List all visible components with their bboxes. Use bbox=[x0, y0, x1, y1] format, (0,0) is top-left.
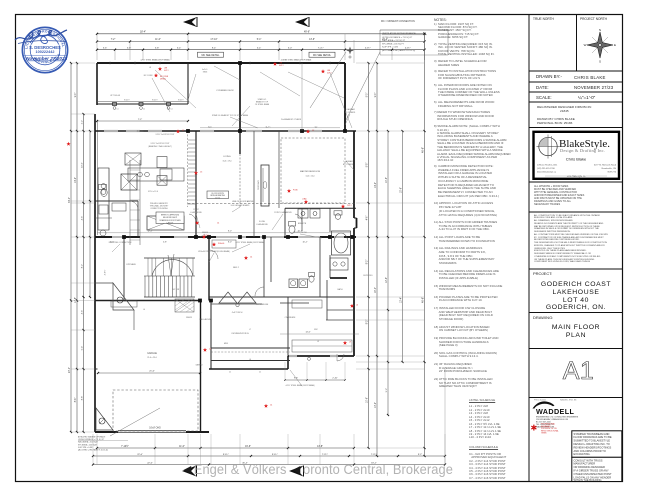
svg-text:3'-4": 3'-4" bbox=[177, 47, 182, 49]
svg-text:10'-6": 10'-6" bbox=[386, 177, 388, 183]
svg-text:C2: C2 bbox=[182, 130, 184, 132]
svg-text:WITHIN THE BUILDING: WITHIN THE BUILDING bbox=[574, 478, 602, 482]
svg-text:W10x30: W10x30 bbox=[218, 243, 224, 245]
svg-text:3'-0": 3'-0" bbox=[288, 47, 293, 49]
svg-text:11'-0": 11'-0" bbox=[179, 446, 185, 448]
svg-text:SM05: SM05 bbox=[203, 72, 207, 74]
svg-text:11'-0": 11'-0" bbox=[155, 39, 161, 41]
svg-text:W: W bbox=[584, 43, 587, 47]
svg-text:LOAD ABOVE: LOAD ABOVE bbox=[256, 223, 268, 226]
svg-text:4-PLY STEEL BEAM (DROP BEAM): 4-PLY STEEL BEAM (DROP BEAM) bbox=[236, 241, 265, 244]
svg-text:SPC AREA = 246 SQM: SPC AREA = 246 SQM bbox=[78, 443, 97, 446]
svg-text:LINE OF FLOOR ABOVE: LINE OF FLOOR ABOVE bbox=[232, 200, 254, 203]
svg-text:4'-6": 4'-6" bbox=[81, 310, 83, 315]
svg-text:7'-10½": 7'-10½" bbox=[121, 444, 129, 448]
svg-text:13'-2": 13'-2" bbox=[375, 402, 377, 408]
svg-text:BY OTHERS: BY OTHERS bbox=[345, 112, 356, 114]
svg-text:REFER TO APPROVED: REFER TO APPROVED bbox=[161, 214, 180, 217]
svg-text:CLOTHESLINE: CLOTHESLINE bbox=[256, 304, 269, 306]
svg-text:MUD: MUD bbox=[224, 343, 229, 345]
svg-text:46'-8": 46'-8" bbox=[421, 297, 424, 303]
svg-text:LOAD: LOAD bbox=[302, 198, 307, 201]
svg-text:MILLWORK SHOP: MILLWORK SHOP bbox=[163, 217, 178, 219]
svg-text:C4: C4 bbox=[250, 257, 252, 259]
svg-text:CW BREEZE: CW BREEZE bbox=[285, 317, 296, 319]
svg-text:14'-6": 14'-6" bbox=[305, 331, 310, 333]
svg-text:9'-6¾": 9'-6¾" bbox=[152, 98, 158, 101]
svg-text:L9: L9 bbox=[349, 342, 351, 344]
svg-text:Brooksville, ON: Brooksville, ON bbox=[602, 167, 617, 170]
svg-text:www.blakestyle.ca: www.blakestyle.ca bbox=[567, 175, 586, 178]
svg-text:L8E: L8E bbox=[327, 70, 331, 72]
svg-text:21-6 x 23-0: 21-6 x 23-0 bbox=[147, 357, 157, 359]
svg-text:WADDELL ENG. BB: WADDELL ENG. BB bbox=[560, 399, 577, 402]
svg-text:2-PLY 2x6 STUD POST: 2-PLY 2x6 STUD POST bbox=[150, 143, 170, 145]
svg-text:W10x30 STEEL BEAM (FLUSH BEAM): W10x30 STEEL BEAM (FLUSH BEAM) bbox=[198, 250, 230, 253]
svg-text:LOAD ABOVE: LOAD ABOVE bbox=[190, 211, 202, 214]
svg-text:UP 710S-08: UP 710S-08 bbox=[110, 95, 120, 97]
svg-text:100222442: 100222442 bbox=[35, 50, 54, 54]
svg-text:14'-2": 14'-2" bbox=[75, 177, 77, 183]
svg-text:PRE-MFG CABINETRY: PRE-MFG CABINETRY bbox=[150, 202, 169, 205]
svg-text:4'-8½": 4'-8½" bbox=[365, 45, 371, 49]
svg-text:8'-2": 8'-2" bbox=[366, 260, 368, 265]
svg-text:8'-0": 8'-0" bbox=[228, 231, 232, 233]
svg-text:5'-4": 5'-4" bbox=[81, 346, 83, 351]
svg-text:9'-8": 9'-8" bbox=[294, 378, 298, 380]
svg-text:6277 St. Michaels Road: 6277 St. Michaels Road bbox=[594, 164, 617, 167]
svg-text:WALL AREA = 312 SQM: WALL AREA = 312 SQM bbox=[78, 441, 98, 444]
svg-text:8'-2": 8'-2" bbox=[366, 320, 368, 325]
svg-text:21'-4": 21'-4" bbox=[382, 39, 388, 41]
svg-text:18'-4": 18'-4" bbox=[140, 31, 146, 34]
svg-text:DESIGN + DRAFTING INC. TO: DESIGN + DRAFTING INC. TO bbox=[574, 442, 610, 446]
svg-text:POINT: POINT bbox=[193, 209, 199, 211]
svg-text:4-PLY: 4-PLY bbox=[164, 70, 169, 72]
svg-text:12'-4": 12'-4" bbox=[400, 297, 402, 303]
svg-text:N0H 2T0: N0H 2T0 bbox=[608, 172, 617, 174]
svg-text:GATE R2: GATE R2 bbox=[195, 364, 202, 367]
svg-text:BED 2: BED 2 bbox=[233, 267, 240, 269]
svg-text:OF STEEL BEAM: OF STEEL BEAM bbox=[255, 103, 270, 106]
svg-text:6-2: 6-2 bbox=[315, 127, 318, 129]
svg-text:22'-6": 22'-6" bbox=[147, 462, 153, 464]
svg-text:STAIR LVL: STAIR LVL bbox=[258, 98, 267, 101]
svg-text:C1: C1 bbox=[171, 109, 173, 111]
svg-text:L8: L8 bbox=[149, 67, 151, 69]
svg-text:13'-6": 13'-6" bbox=[309, 39, 315, 41]
svg-text:12'-4": 12'-4" bbox=[386, 277, 388, 283]
svg-text:8'-0": 8'-0" bbox=[228, 241, 232, 243]
svg-text:MASTER BEDROOM: MASTER BEDROOM bbox=[300, 170, 320, 173]
svg-text:LIVING DISTANCE = 731 SQ FT: LIVING DISTANCE = 731 SQ FT bbox=[78, 438, 105, 441]
svg-text:46'-8": 46'-8" bbox=[421, 147, 424, 153]
svg-text:16-6 x 19-0: 16-6 x 19-0 bbox=[222, 161, 231, 163]
svg-text:November 27 2023: November 27 2023 bbox=[26, 56, 68, 61]
svg-text:L4: L4 bbox=[143, 309, 145, 311]
svg-text:22'-6": 22'-6" bbox=[137, 454, 143, 456]
svg-text:STAIR LVL BEAM BY TOP OF STEEL: STAIR LVL BEAM BY TOP OF STEEL BEAM bbox=[212, 114, 248, 117]
svg-text:9'-8½": 9'-8½" bbox=[223, 452, 229, 456]
svg-text:C1: C1 bbox=[143, 109, 145, 111]
svg-text:7'-4½": 7'-4½" bbox=[318, 45, 324, 49]
svg-text:PROJ. No0001: PROJ. No0001 bbox=[534, 400, 546, 402]
svg-text:WIC: WIC bbox=[314, 329, 318, 331]
svg-text:(BEARING 2 WALL HEIGHT): (BEARING 2 WALL HEIGHT) bbox=[148, 145, 172, 148]
svg-text:Design & Drafting Inc.: Design & Drafting Inc. bbox=[560, 148, 605, 153]
svg-text:VENTILATION NOTES/UPGRADE: VENTILATION NOTES/UPGRADE bbox=[382, 32, 416, 35]
svg-text:L8E: L8E bbox=[164, 68, 168, 70]
svg-text:4-PLY STEEL BEAM (DROP BEAM): 4-PLY STEEL BEAM (DROP BEAM) bbox=[141, 58, 170, 61]
svg-text:C1: C1 bbox=[229, 372, 231, 374]
svg-text:5'-4": 5'-4" bbox=[257, 39, 262, 41]
svg-text:EXCAVATING.: EXCAVATING. bbox=[574, 452, 591, 456]
svg-text:9'-2": 9'-2" bbox=[418, 454, 423, 456]
svg-text:MC SEE DETAIL: MC SEE DETAIL bbox=[313, 54, 332, 57]
svg-text:14'-2": 14'-2" bbox=[375, 182, 377, 188]
svg-text:OR DRAWING DESIGNER: OR DRAWING DESIGNER bbox=[574, 465, 605, 469]
svg-text:3'-6": 3'-6" bbox=[103, 47, 108, 49]
svg-text:2-PLY: 2-PLY bbox=[347, 205, 352, 207]
svg-text:STAMPED TRUSS/BEAM AND: STAMPED TRUSS/BEAM AND bbox=[574, 432, 610, 436]
svg-text:CONSULT WITH TRUSS: CONSULT WITH TRUSS bbox=[574, 458, 603, 462]
svg-text:9'-0": 9'-0" bbox=[366, 93, 368, 98]
svg-text:RM6 STEEL CONNECTION: RM6 STEEL CONNECTION bbox=[109, 242, 132, 244]
svg-text:BATH: BATH bbox=[338, 288, 344, 291]
svg-text:49'-6": 49'-6" bbox=[304, 31, 310, 34]
svg-text:✱: ✱ bbox=[531, 424, 538, 433]
svg-text:4x4'-0½: 4x4'-0½ bbox=[202, 67, 209, 71]
svg-text:ITEMS: ITEMS bbox=[541, 433, 547, 435]
svg-text:MC CONN: MC CONN bbox=[144, 75, 153, 77]
svg-text:9'-6¾": 9'-6¾" bbox=[124, 98, 130, 101]
svg-text:2'-10": 2'-10" bbox=[332, 378, 338, 380]
svg-text:POINT LOAD ABOVE: POINT LOAD ABOVE bbox=[274, 211, 292, 214]
svg-text:4-PLY STEEL BEAM (DROP BEAM): 4-PLY STEEL BEAM (DROP BEAM) bbox=[286, 384, 315, 387]
svg-text:C4: C4 bbox=[270, 405, 272, 407]
svg-text:ENSUITE: ENSUITE bbox=[298, 223, 307, 225]
svg-text:SM059: SM059 bbox=[186, 317, 192, 319]
svg-text:C1: C1 bbox=[259, 372, 261, 374]
svg-text:N-UP 3PE = 0.4M: N-UP 3PE = 0.4M bbox=[382, 47, 398, 49]
svg-text:5'-8": 5'-8" bbox=[155, 47, 160, 49]
svg-text:9-6¾: 9-6¾ bbox=[208, 126, 213, 129]
svg-text:Chris Blake: Chris Blake bbox=[566, 157, 587, 162]
svg-text:7'-2": 7'-2" bbox=[138, 119, 143, 121]
svg-text:(Office) 705-801-1551: (Office) 705-801-1551 bbox=[537, 165, 558, 167]
svg-text:LAYOUT: LAYOUT bbox=[167, 221, 174, 224]
svg-text:4'-6½": 4'-6½" bbox=[103, 269, 107, 275]
svg-text:L6: L6 bbox=[249, 359, 251, 361]
svg-text:16'x8' OHD: 16'x8' OHD bbox=[149, 428, 161, 430]
svg-text:SPC AREA = 246 SQ FT: SPC AREA = 246 SQ FT bbox=[382, 42, 405, 45]
svg-text:AND COLUMNS PRIOR TO: AND COLUMNS PRIOR TO bbox=[574, 449, 606, 453]
svg-text:LIVING: LIVING bbox=[223, 156, 230, 158]
svg-text:5'-2": 5'-2" bbox=[386, 388, 388, 393]
svg-text:9'-6¾": 9'-6¾" bbox=[178, 98, 184, 101]
svg-text:16'-6": 16'-6" bbox=[245, 446, 251, 448]
svg-text:11-7¾: 11-7¾ bbox=[266, 126, 271, 129]
svg-text:10'-2": 10'-2" bbox=[302, 241, 307, 243]
svg-text:CW BREEZE/PORCH: CW BREEZE/PORCH bbox=[231, 333, 249, 335]
svg-text:DETAIL: DETAIL bbox=[160, 78, 166, 81]
svg-text:4'-8½": 4'-8½" bbox=[405, 45, 411, 49]
svg-text:C4: C4 bbox=[209, 349, 211, 351]
svg-text:C1: C1 bbox=[117, 109, 119, 111]
svg-text:MANUFACTURER: MANUFACTURER bbox=[574, 462, 596, 466]
svg-text:10'-6": 10'-6" bbox=[366, 397, 368, 403]
svg-text:2-LA BEAM: 2-LA BEAM bbox=[345, 108, 355, 111]
svg-text:14-0 x 14-0: 14-0 x 14-0 bbox=[305, 176, 314, 178]
svg-text:4'-6": 4'-6" bbox=[366, 216, 368, 221]
svg-text:8'-4": 8'-4" bbox=[75, 398, 77, 403]
svg-text:15'-6": 15'-6" bbox=[400, 187, 402, 193]
svg-text:12'-2": 12'-2" bbox=[147, 231, 152, 233]
svg-text:10'-2": 10'-2" bbox=[297, 231, 302, 233]
svg-text:8'-8": 8'-8" bbox=[81, 396, 83, 401]
svg-text:9'-8½": 9'-8½" bbox=[272, 452, 278, 456]
svg-text:7'-9¼": 7'-9¼" bbox=[322, 453, 328, 456]
svg-text:C4: C4 bbox=[217, 223, 219, 225]
svg-text:REVIEW HEADERS/FOOTINGS: REVIEW HEADERS/FOOTINGS bbox=[574, 445, 612, 449]
svg-text:S: S bbox=[599, 60, 601, 64]
svg-text:16'-0": 16'-0" bbox=[375, 287, 377, 293]
svg-text:L6: L6 bbox=[356, 305, 358, 307]
svg-text:9'-0": 9'-0" bbox=[375, 93, 377, 98]
svg-text:8'-2": 8'-2" bbox=[81, 264, 83, 269]
svg-text:5'-8": 5'-8" bbox=[127, 47, 132, 49]
svg-text:BEAM BY TOP: BEAM BY TOP bbox=[256, 101, 269, 104]
svg-text:E: E bbox=[614, 43, 616, 47]
svg-text:2'-2": 2'-2" bbox=[81, 120, 83, 125]
svg-text:MC = MOMENT CONNECTION: MC = MOMENT CONNECTION bbox=[381, 20, 415, 23]
svg-text:23'-0": 23'-0" bbox=[69, 367, 71, 373]
svg-text:A1: A1 bbox=[563, 357, 595, 385]
svg-text:SM409: SM409 bbox=[202, 232, 208, 234]
svg-text:ATTACHED GARAGE UPGRADE:: ATTACHED GARAGE UPGRADE: bbox=[78, 436, 106, 439]
svg-text:9'-8": 9'-8" bbox=[366, 163, 368, 168]
svg-text:2x10 LEDGER BOARD: 2x10 LEDGER BOARD bbox=[231, 204, 250, 207]
svg-text:WALL ABOVE: WALL ABOVE bbox=[199, 318, 211, 321]
svg-text:5'-4": 5'-4" bbox=[257, 47, 262, 49]
svg-text:L7: L7 bbox=[249, 329, 251, 331]
svg-text:12 OC: 12 OC bbox=[215, 197, 221, 199]
svg-text:17'-8": 17'-8" bbox=[75, 297, 77, 303]
svg-text:17'-10": 17'-10" bbox=[210, 39, 217, 41]
svg-text:KITCHEN: KITCHEN bbox=[126, 264, 136, 266]
svg-text:4'-6": 4'-6" bbox=[81, 216, 83, 221]
svg-text:N: N bbox=[599, 28, 601, 32]
svg-text:5'-8": 5'-8" bbox=[163, 241, 167, 243]
svg-text:OTHER UNSUSPECTED POINT: OTHER UNSUSPECTED POINT bbox=[574, 472, 612, 476]
svg-text:STAIRS: STAIRS bbox=[137, 130, 144, 133]
svg-text:blake@blakestyle.ca: blake@blakestyle.ca bbox=[537, 171, 557, 174]
svg-text:FLOOR DRAWINGS ARE TO BE: FLOOR DRAWINGS ARE TO BE bbox=[574, 435, 612, 439]
svg-text:CONNECTION DETAIL: CONNECTION DETAIL bbox=[150, 207, 168, 210]
svg-text:34'-0": 34'-0" bbox=[69, 197, 71, 203]
svg-text:UP 15R: UP 15R bbox=[173, 289, 180, 291]
svg-text:WADDELL: WADDELL bbox=[536, 407, 575, 416]
svg-text:FLUSH: FLUSH bbox=[259, 221, 266, 223]
svg-text:4-SPAN STEEL BEAM (DROP BEAM): 4-SPAN STEEL BEAM (DROP BEAM) bbox=[281, 58, 312, 61]
svg-text:9'-0": 9'-0" bbox=[75, 93, 77, 98]
svg-text:COVERED DECK: COVERED DECK bbox=[216, 90, 234, 92]
svg-text:THRU-WALL DELIVERY: THRU-WALL DELIVERY bbox=[150, 205, 169, 208]
svg-text:4'x8' PORCH: 4'x8' PORCH bbox=[232, 312, 243, 314]
svg-text:2-PLY 2x6 STUD POST: 2-PLY 2x6 STUD POST bbox=[155, 134, 175, 136]
svg-text:BY OTHERS: BY OTHERS bbox=[343, 164, 354, 166]
svg-text:(US) 231-431-2310: (US) 231-431-2310 bbox=[537, 168, 556, 170]
svg-text:FIREPLACE: FIREPLACE bbox=[257, 179, 260, 190]
svg-text:IF A GIRDER TRUSS OR ANY: IF A GIRDER TRUSS OR ANY bbox=[574, 469, 610, 473]
svg-text:L9: L9 bbox=[317, 341, 319, 343]
svg-text:SUBMITTED TO BLAKESTYLE: SUBMITTED TO BLAKESTYLE bbox=[574, 439, 611, 443]
svg-text:KIT-0 x 12-6: KIT-0 x 12-6 bbox=[148, 191, 158, 193]
svg-text:C3: C3 bbox=[200, 172, 202, 174]
svg-text:GARAGE: GARAGE bbox=[147, 352, 157, 355]
svg-text:2-LA BEAM BY OTHERS: 2-LA BEAM BY OTHERS bbox=[281, 118, 302, 121]
svg-text:9'-4": 9'-4" bbox=[212, 47, 217, 49]
svg-text:S. DESROCHES: S. DESROCHES bbox=[29, 45, 61, 50]
svg-text:MC SEE DETAIL: MC SEE DETAIL bbox=[201, 54, 220, 57]
svg-text:4-PLY: 4-PLY bbox=[279, 65, 284, 67]
svg-text:PO4S: PO4S bbox=[293, 190, 298, 192]
svg-text:C2: C2 bbox=[312, 130, 314, 132]
svg-text:7'-2": 7'-2" bbox=[111, 39, 116, 41]
svg-text:7'-9¼": 7'-9¼" bbox=[371, 453, 377, 456]
svg-text:21'-6": 21'-6" bbox=[149, 371, 155, 373]
svg-text:10'-0": 10'-0" bbox=[81, 162, 83, 168]
svg-text:1-LA BEAM: 1-LA BEAM bbox=[343, 160, 353, 163]
